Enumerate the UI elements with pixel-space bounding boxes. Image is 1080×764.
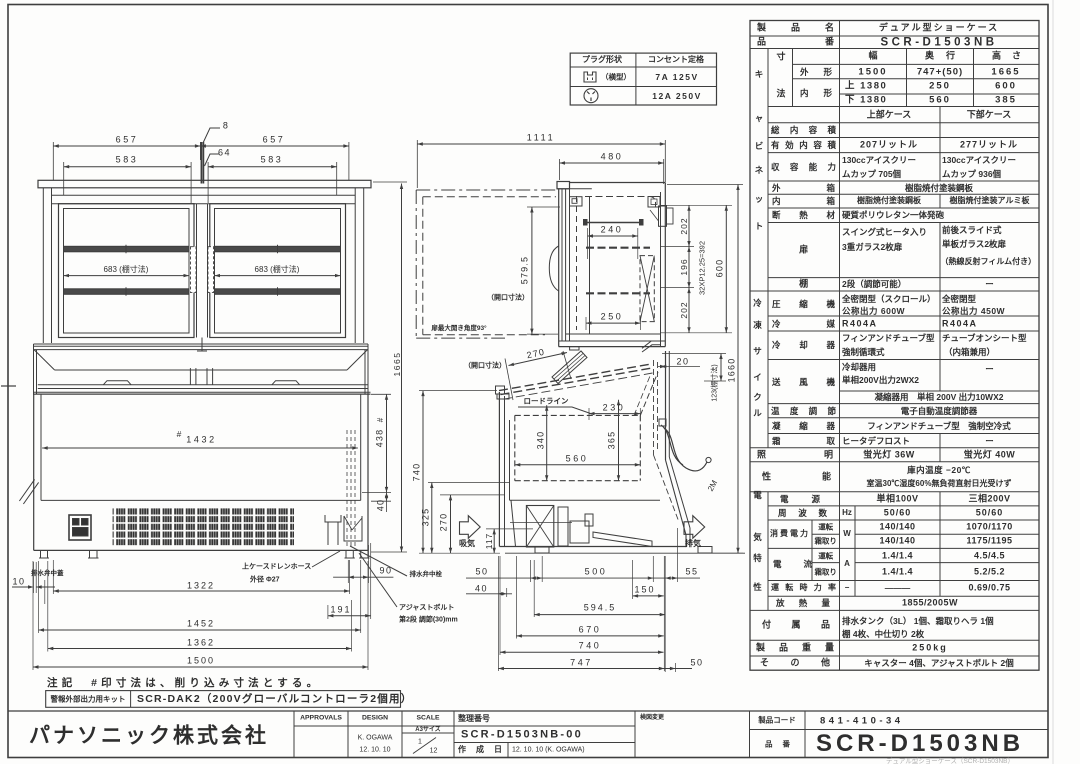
front view: center post stub above cap <box>200 142 202 184</box>
dim 670 <box>516 635 663 637</box>
exhaust arrow <box>684 516 705 539</box>
dim 740 bottom <box>500 651 664 653</box>
dim 747 + 50 <box>498 668 664 670</box>
front view: top frame rails <box>52 194 356 196</box>
front view: upper case bottom band <box>34 343 369 345</box>
spec table grid <box>750 21 1039 671</box>
product code block texts <box>0 0 1080 1</box>
dim 270 slanted lid <box>509 353 568 366</box>
dim 657 left <box>53 145 200 147</box>
side view: interior front wall + latch <box>589 197 591 335</box>
frame centering mark left <box>1 385 16 387</box>
dim 1432 inside lower cabinet <box>42 447 358 449</box>
spec table texts <box>0 0 1080 1</box>
title block grid <box>8 710 1048 712</box>
side view: lid back step <box>642 341 660 348</box>
dim 740 left side view <box>422 391 424 554</box>
dim 683 left (shelf) <box>64 275 190 277</box>
leader to adjust bolt label <box>359 553 397 607</box>
side view: interior top-right details <box>648 197 660 208</box>
dim 230 <box>589 413 640 415</box>
dim 10 left <box>12 586 32 588</box>
scale slash <box>413 738 436 754</box>
plug table texts <box>0 0 1080 1</box>
dim 600 right <box>725 205 727 332</box>
side view: sliding lid (dashed slant) <box>499 364 651 391</box>
dim 20 <box>658 366 700 368</box>
dim 1111 top <box>417 143 665 145</box>
side view: shelf 1 (solid) <box>586 222 640 224</box>
front view: body side walls <box>42 188 44 343</box>
alarm kit box <box>46 691 401 708</box>
dim 480 <box>560 162 664 164</box>
dim 40 vertical <box>386 483 388 512</box>
bottom dim row 50/500/55 <box>466 577 700 579</box>
dim 1665 vertical right <box>401 184 403 553</box>
dim 683 right (shelf) <box>215 275 341 277</box>
side view: shelves 2-3 (dashed) <box>586 247 650 249</box>
front view: left glass door <box>59 204 195 338</box>
side view: upper case top cap <box>557 182 570 189</box>
front view: control box <box>69 515 91 540</box>
dim 191 <box>328 615 371 617</box>
leader to drain plug label <box>350 546 407 576</box>
dim 340 <box>546 405 548 481</box>
dim 1452 <box>39 629 361 631</box>
side view: lower case front wall <box>498 392 500 547</box>
front view: feet and casters <box>40 550 42 558</box>
front view: drain assembly <box>325 515 341 522</box>
plug table <box>570 53 716 105</box>
front view: top cap <box>38 180 371 188</box>
dim 250 <box>586 322 641 324</box>
side view: interior liner dashed ceiling <box>585 197 656 208</box>
dim 1362 <box>48 648 352 650</box>
leader for 64 <box>205 154 220 166</box>
front view: lower cabinet walls <box>33 394 35 550</box>
dim 438 vertical <box>386 394 388 492</box>
side view: power cord 2M <box>664 428 707 471</box>
side view dim texts <box>0 0 1080 1</box>
leader for 8 (mullion) <box>203 128 220 143</box>
front view: shelves left door <box>64 246 190 252</box>
plug icon round <box>584 89 598 103</box>
side view: door handle <box>549 246 558 291</box>
dim 579.5 <box>531 207 533 334</box>
load line label leader <box>518 407 592 414</box>
side view: condenser fan box <box>526 506 553 548</box>
dim 150 <box>633 595 664 597</box>
dim 583 left <box>64 166 191 168</box>
dim 1322 <box>53 590 349 592</box>
side view: lid front grip <box>496 386 505 394</box>
side view: lower case interior (dashed) <box>515 414 641 416</box>
leader to drain hose label <box>312 551 340 567</box>
title block texts <box>0 0 1080 1</box>
dim 117 <box>493 529 495 553</box>
front view: tray band with dividers <box>33 344 35 394</box>
dim 240 <box>588 235 638 237</box>
front view: shelves right door <box>215 246 341 252</box>
dim 365 <box>618 400 620 481</box>
side view: back wall <box>660 192 662 347</box>
front view: left break marks <box>19 479 34 501</box>
front view: base front panel <box>41 499 361 501</box>
side view: open door panel (dashed) <box>423 196 556 198</box>
dim 583 right <box>208 166 337 168</box>
front view: center mullion <box>196 204 198 338</box>
dim 270 vertical <box>450 495 452 553</box>
dim 123 shelf <box>720 354 722 382</box>
note texts <box>0 0 1080 1</box>
side view: evaporator box with X <box>640 256 654 322</box>
dim 560 <box>515 464 641 466</box>
front view: hidden drain pipes (dashed) <box>346 430 348 548</box>
side view: back duct slants <box>666 460 687 535</box>
side view: machine compartment top <box>510 499 661 501</box>
dim 657 right <box>200 145 349 147</box>
side view: base bottom + casters <box>499 546 686 548</box>
side view: front door glass <box>558 189 560 347</box>
side view: back wall lower <box>665 351 667 460</box>
side view: compressor parts <box>558 507 568 546</box>
dim 1500 <box>33 666 368 668</box>
intake arrow <box>460 516 481 539</box>
side view: open lid flap <box>552 351 587 384</box>
front view: base bottom <box>34 549 368 551</box>
side view: interior floor + bottom <box>566 333 660 335</box>
dim 325 <box>431 483 433 554</box>
front view: right glass door <box>210 204 346 338</box>
dim 594.5 <box>534 614 665 616</box>
dim 40 row <box>466 593 512 595</box>
side view: open door swing (dash-dot) <box>416 189 558 191</box>
dims 202/196/202 right <box>688 205 690 246</box>
plug icon flat <box>584 72 596 82</box>
dim 1660 <box>737 185 739 554</box>
dim 90 <box>333 576 393 578</box>
front view dim texts <box>0 0 1080 1</box>
